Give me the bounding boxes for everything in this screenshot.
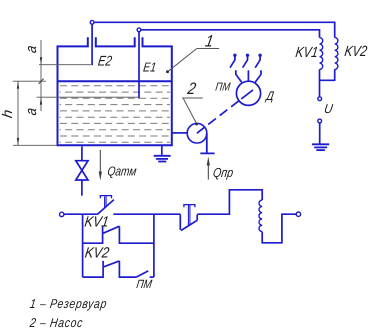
tick at water level [39,79,44,84]
drain valve [76,146,88,195]
svg-text:KV2: KV2 [84,244,111,261]
wire E2 to KV2 coil [94,22,335,37]
wire coil to right terminal [262,214,296,243]
svg-text:ПМ: ПМ [136,278,154,291]
electrode E2 terminal circle [90,20,94,24]
pump 2 circle [187,123,207,143]
svg-text:KV1: KV1 [84,213,110,230]
tank 1 (reservoir) outline [58,37,172,145]
wire to ground [319,123,321,144]
Qatm arrow [99,150,101,172]
mechanical link (dashed) pump to motor [197,90,253,133]
ground (right) [312,144,329,150]
motor D circle [236,81,260,105]
dimension a (lower) [37,96,139,98]
svg-text:1: 1 [204,32,215,50]
stop button contact [180,205,197,231]
water hatching [60,86,171,143]
svg-text:a: a [22,44,39,54]
wire E1 to KV1 coil [141,30,320,38]
ground (tank) [154,146,171,162]
relay coil KV1 [320,38,323,70]
wire main line middle [113,213,180,215]
wire coil KV2 bottom to junction [320,69,335,80]
contact KV1 (holding) [83,226,154,243]
right branch vertical wire [153,214,155,277]
electrode E1 terminal circle [137,28,141,32]
terminal U lower [318,119,322,123]
svg-text:E2: E2 [97,52,113,68]
electrode E2 [91,24,93,65]
relay coil KV2 [335,38,338,70]
svg-text:2 – Насос: 2 – Насос [28,316,84,330]
water surface line [58,80,172,82]
wire coil KV1 bottom to terminal [319,69,321,96]
coil PM [259,200,262,232]
starter PM switch pole 2 [243,54,249,81]
svg-text:Д: Д [264,90,275,103]
terminal U upper [318,97,322,101]
svg-text:Qпр: Qпр [212,165,235,180]
svg-text:h: h [1,109,17,119]
dimension a (upper) [39,40,91,111]
starter PM switch pole 1 [230,54,242,82]
control circuit: left terminal [60,212,64,216]
svg-text:Qатм: Qатм [107,164,138,178]
svg-text:2: 2 [185,80,197,98]
right terminal [296,212,300,216]
pump inlet wire [172,132,188,134]
pump outlet pipe [200,133,214,153]
left branch vertical wire [82,214,84,277]
Qpr arrow [207,164,209,180]
contact PM [136,271,154,277]
svg-text:1 – Резервуар: 1 – Резервуар [29,297,108,311]
svg-text:a: a [22,107,39,117]
wire to coil loop [197,190,262,214]
wire main line left [64,213,98,215]
svg-text:KV2: KV2 [344,43,369,59]
svg-text:KV1: KV1 [295,44,320,60]
electrode E1 [138,32,140,99]
pushbutton contact (KV1 row top) blade [98,196,114,215]
svg-text:E1: E1 [142,60,157,75]
contact KV2 [83,261,137,277]
svg-text:U: U [323,101,334,116]
starter PM switch pole 3 [255,54,261,82]
svg-text:ПМ: ПМ [215,81,232,94]
dimension h [13,81,57,145]
